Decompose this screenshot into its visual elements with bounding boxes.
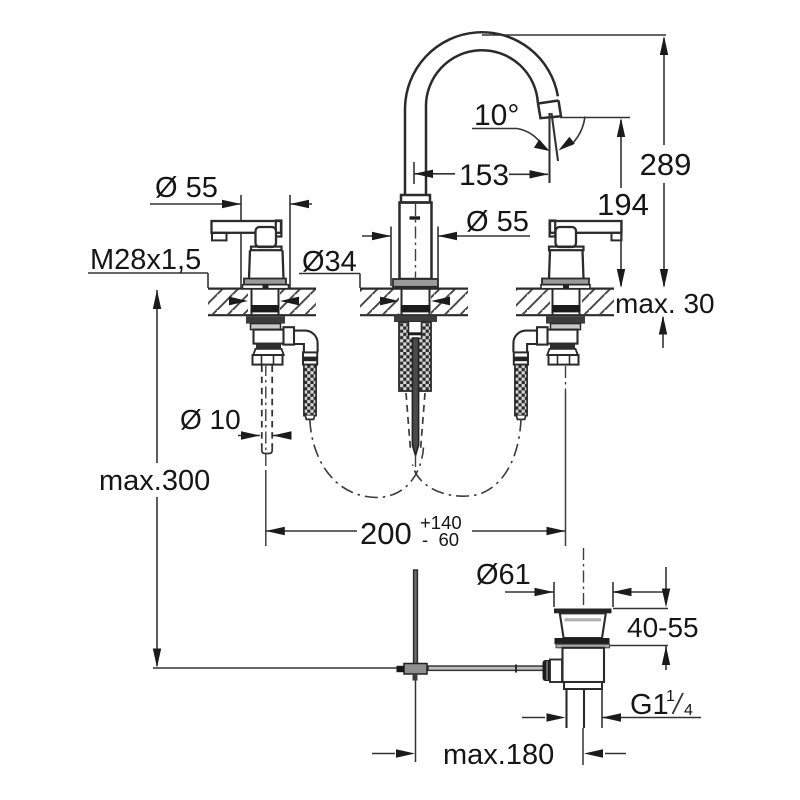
svg-text:Ø 10: Ø 10	[180, 404, 241, 435]
svg-text:- 60: - 60	[422, 529, 459, 550]
svg-text:194: 194	[597, 187, 649, 222]
svg-text:153: 153	[459, 159, 509, 192]
svg-text:4: 4	[684, 702, 693, 719]
svg-text:40-55: 40-55	[627, 612, 699, 643]
svg-text:200: 200	[360, 516, 412, 551]
svg-text:M28x1,5: M28x1,5	[90, 244, 201, 276]
svg-text:Ø 55: Ø 55	[155, 172, 218, 204]
svg-text:Ø34: Ø34	[302, 246, 357, 278]
svg-text:Ø61: Ø61	[476, 559, 531, 591]
svg-text:max.300: max.300	[99, 465, 210, 497]
svg-text:289: 289	[640, 147, 692, 182]
svg-text:10°: 10°	[474, 99, 519, 132]
svg-text:max. 30: max. 30	[615, 288, 715, 319]
svg-text:max.180: max.180	[443, 739, 554, 771]
svg-text:1: 1	[666, 688, 675, 705]
svg-text:Ø 55: Ø 55	[466, 206, 529, 238]
svg-text:G1: G1	[630, 689, 669, 721]
